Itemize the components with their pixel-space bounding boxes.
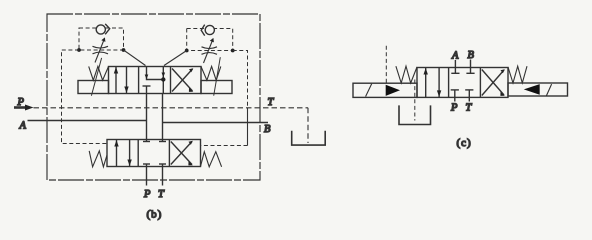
U3 left solenoid triangle — [386, 85, 400, 96]
node: right assembly left port — [185, 49, 189, 53]
svg-text:A: A — [451, 51, 459, 62]
svg-text:(b): (b) — [147, 209, 163, 221]
U1 centre position: port link with junction — [147, 67, 164, 80]
pilot wire: right assembly to T line — [233, 51, 248, 109]
svg-text:A: A — [19, 121, 27, 132]
U2 T stub down — [162, 164, 164, 186]
U3 right spring — [508, 66, 527, 83]
U3 right solenoid box — [508, 83, 568, 96]
U3 left position arrows — [425, 68, 427, 98]
U2 P stub down — [146, 164, 148, 186]
check valve seat (left) — [105, 24, 110, 34]
U1 centre blocked port stub — [143, 85, 151, 87]
check valve seat (right) — [201, 25, 205, 36]
one-way throttle assembly (left) dashed box — [79, 28, 124, 50]
pilot valve U1 (top directional valve) body — [109, 67, 202, 94]
U2 left spring — [89, 151, 107, 167]
check valve ball (left) — [96, 25, 105, 34]
U3 left solenoid box — [353, 83, 417, 97]
svg-text:T: T — [158, 189, 165, 200]
one-way throttle assembly (right) dashed box — [187, 29, 233, 51]
U1 right spring — [201, 66, 221, 80]
pilot P/T chain line — [34, 107, 309, 109]
U3 centre blocked ports — [454, 60, 456, 73]
svg-text:P: P — [17, 97, 25, 108]
U3 right position crossed arrows — [482, 70, 504, 96]
check valve ball (right) — [205, 25, 214, 34]
svg-text:B: B — [264, 124, 271, 135]
drain line to tank — [414, 80, 416, 121]
U2 right position crossed arrows — [171, 142, 192, 165]
svg-text:T: T — [268, 97, 275, 108]
pilot wire: B line to bottom valve right spring chamber — [247, 108, 249, 146]
tank (b) — [292, 131, 326, 145]
svg-text:(c): (c) — [457, 137, 472, 149]
U3 right solenoid triangle — [524, 84, 540, 95]
svg-text:T: T — [466, 102, 473, 113]
svg-text:B: B — [468, 50, 475, 61]
svg-text:P: P — [450, 102, 458, 113]
main valve U2 (bottom directional valve) body — [107, 140, 201, 167]
B line — [163, 122, 269, 124]
svg-text:P: P — [143, 189, 151, 200]
U3 left solenoid diagonal — [366, 84, 372, 97]
throttle arrow (left) — [95, 39, 105, 63]
pilot wire: left assembly to bottom valve spring chamber — [62, 50, 109, 144]
T drain line down to tank — [307, 108, 309, 143]
throttle valve (left) — [93, 46, 109, 48]
U1 right position crossed arrows — [172, 69, 193, 92]
U2 right spring — [201, 152, 222, 167]
wire: left assembly to valve port — [124, 50, 146, 66]
U1 right solenoid stroke arrow — [214, 57, 221, 95]
throttle arrow (right) — [204, 39, 214, 63]
U1 left solenoid stroke arrow — [91, 58, 101, 96]
node: right assembly right port — [231, 49, 235, 53]
U1 left spring — [89, 66, 109, 80]
U1 left proportional solenoid box — [78, 81, 109, 94]
U1 left position arrows — [115, 67, 117, 94]
U3 right solenoid diagonal — [546, 84, 551, 96]
A line — [28, 120, 147, 122]
wire B: top valve to bottom valve vertical — [162, 94, 164, 142]
node (U1 centre junction) — [161, 77, 165, 81]
P supply arrow — [14, 105, 34, 111]
throttle valve (right) — [202, 47, 218, 49]
U1 right proportional solenoid box — [201, 81, 232, 94]
U2 centre blocked ports — [143, 141, 150, 143]
valve U3 body — [417, 68, 508, 98]
wire A: top valve to bottom valve vertical — [146, 94, 148, 142]
node: left assembly left port — [77, 48, 81, 52]
wire: right assembly to valve port — [164, 51, 187, 66]
pilot line above solenoid — [385, 46, 387, 83]
enclosure (assembly boundary, chain line) — [47, 14, 260, 180]
U3 left spring — [396, 66, 417, 83]
node: left assembly right port — [122, 48, 126, 52]
U2 left position arrows — [116, 140, 118, 167]
tank (c) — [399, 105, 431, 124]
